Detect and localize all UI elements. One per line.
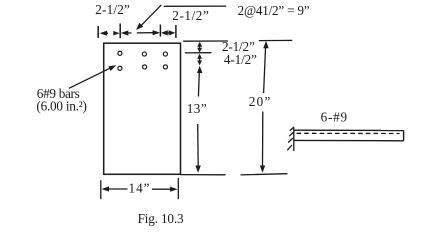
svg-text:13”: 13” (187, 101, 207, 116)
svg-text:6-#9: 6-#9 (321, 109, 348, 124)
svg-text:14”: 14” (129, 181, 150, 196)
svg-text:(6.00 in.²): (6.00 in.²) (36, 99, 87, 114)
svg-text:2-1/2”: 2-1/2” (172, 8, 209, 23)
svg-text:2-1/2”: 2-1/2” (95, 2, 130, 17)
svg-text:2@41/2” = 9”: 2@41/2” = 9” (238, 3, 310, 18)
svg-text:Fig. 10.3: Fig. 10.3 (138, 211, 184, 226)
svg-text:20”: 20” (249, 94, 271, 109)
svg-text:4-1/2”: 4-1/2” (224, 52, 257, 67)
